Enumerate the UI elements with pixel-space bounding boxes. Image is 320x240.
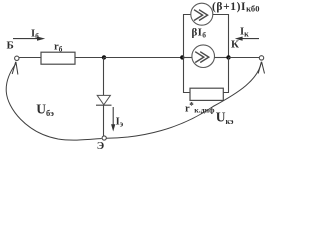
svg-text:Б: Б	[7, 40, 14, 52]
current source U2 βIб	[192, 45, 215, 68]
svg-text:Э: Э	[97, 140, 104, 152]
arrow Ib	[13, 38, 39, 40]
wire: resistor to node 1	[75, 57, 104, 59]
svg-text:Iк: Iк	[240, 27, 249, 39]
terminal К	[259, 56, 263, 60]
wire: top branch left side	[184, 15, 191, 58]
wire: node 3 to collector terminal	[229, 57, 260, 59]
current source U1 (β+1)Iкб0	[191, 3, 213, 25]
node 1 junction dot	[102, 55, 106, 59]
svg-text:Uкэ: Uкэ	[216, 109, 234, 126]
svg-text:Uбэ: Uбэ	[36, 101, 54, 118]
wire: lower loop right side	[223, 58, 228, 93]
terminal Э	[102, 136, 106, 140]
wire: diode to emitter terminal	[103, 105, 105, 136]
svg-text:βIб: βIб	[192, 26, 207, 39]
svg-text:(β+1)Iкб0: (β+1)Iкб0	[212, 1, 260, 14]
arrow Ie	[112, 107, 114, 125]
arc Uke (voltage collector-emitter)	[107, 63, 262, 139]
wire: node 1 to node 2	[104, 57, 182, 59]
arrowhead Uke (points to collector terminal)	[258, 62, 264, 74]
svg-text:rб: rб	[54, 41, 63, 53]
node 3 junction dot	[226, 55, 230, 59]
resistor r*к.диф	[190, 88, 223, 100]
terminal Б	[15, 56, 19, 60]
svg-text:Iб: Iб	[31, 28, 39, 40]
arc Ube (voltage base-emitter)	[6, 64, 101, 141]
wire: node 1 down to diode	[103, 58, 105, 96]
wire: node 2 to current source U2	[182, 57, 192, 59]
arrow Ik	[241, 38, 259, 40]
diode VD (emitter junction)	[97, 95, 110, 104]
wire: top branch right side	[213, 15, 229, 58]
svg-text:К: К	[231, 39, 239, 51]
wire: lower loop left side	[184, 58, 191, 93]
wire: base terminal to resistor r_b	[19, 57, 41, 59]
arrowhead Ube (points to base terminal)	[12, 62, 18, 75]
resistor r_b	[41, 52, 75, 64]
wire: current source U2 to node 3	[215, 57, 229, 59]
svg-text:Iэ: Iэ	[116, 116, 124, 128]
node 2 junction dot	[180, 55, 184, 59]
